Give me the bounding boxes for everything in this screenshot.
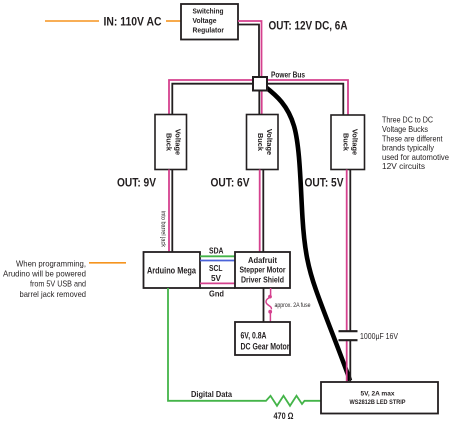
svg-text:from 5V USB and: from 5V USB and <box>30 280 86 289</box>
svg-text:Regulator: Regulator <box>193 26 225 35</box>
resistor R1 470 ohm <box>262 396 321 406</box>
svg-text:5V: 5V <box>211 274 222 283</box>
svg-text:SCL: SCL <box>209 264 223 273</box>
svg-text:Voltage: Voltage <box>265 129 274 155</box>
wire AC input orange segment right <box>166 20 181 22</box>
svg-text:into barrel jack: into barrel jack <box>160 211 166 248</box>
svg-text:Stepper Motor: Stepper Motor <box>240 266 287 275</box>
wire buck2 to shield (pink) <box>259 170 261 253</box>
svg-text:Gnd: Gnd <box>209 289 224 298</box>
wire bus to buck2 (pink) <box>261 90 263 115</box>
svg-text:5V, 2A max: 5V, 2A max <box>361 391 395 398</box>
svg-text:Digital Data: Digital Data <box>191 389 232 399</box>
power bus node square <box>253 77 267 91</box>
wire buck3 to LED strip (pink lower) <box>346 341 348 383</box>
capacitor C1 1000uF plates <box>339 331 358 340</box>
svg-text:Three DC to DC: Three DC to DC <box>382 116 433 125</box>
wire buck1 to arduino (pink) <box>168 170 170 253</box>
wire regulator to power bus (black GND) <box>238 25 259 78</box>
arduino mega box <box>144 252 201 288</box>
svg-text:barrel jack removed: barrel jack removed <box>20 290 87 299</box>
svg-text:IN: 110V AC: IN: 110V AC <box>104 17 162 29</box>
note three DC to DC voltage bucks <box>382 116 449 172</box>
svg-text:Arudino will be powered: Arudino will be powered <box>3 270 86 279</box>
wire SCL (blue) <box>200 260 235 262</box>
voltage buck U2 <box>247 115 279 170</box>
wire Gnd (black) <box>200 287 235 289</box>
svg-text:Adafruit: Adafruit <box>248 256 277 265</box>
svg-text:Voltage: Voltage <box>351 129 360 155</box>
voltage buck U1 <box>155 115 187 170</box>
svg-text:brands typically: brands typically <box>382 144 435 153</box>
svg-text:Voltage: Voltage <box>193 16 217 25</box>
svg-text:Driver Shield: Driver Shield <box>241 275 284 284</box>
voltage buck U3 <box>331 115 365 170</box>
svg-text:OUT: 9V: OUT: 9V <box>117 178 156 190</box>
svg-text:OUT: 5V: OUT: 5V <box>305 178 344 190</box>
stepper motor driver shield box <box>235 252 290 288</box>
svg-text:12V circuits: 12V circuits <box>382 162 425 171</box>
wire bus to buck3 (pink) <box>267 80 348 115</box>
wire buck1 to arduino (black) <box>171 170 173 253</box>
svg-text:6V, 0.8A: 6V, 0.8A <box>241 331 268 341</box>
wire buck3 to LED strip (pink upper) <box>346 170 348 332</box>
svg-text:Switching: Switching <box>193 7 224 16</box>
wire bus to buck1 (pink) <box>169 80 253 115</box>
note when programming <box>3 259 86 299</box>
svg-text:Buck: Buck <box>165 133 174 152</box>
LED strip box <box>321 382 438 414</box>
svg-text:used for automotive: used for automotive <box>382 153 449 162</box>
svg-text:These are different: These are different <box>382 134 443 143</box>
wire digital data (green) <box>168 288 262 401</box>
svg-text:approx. 2A fuse: approx. 2A fuse <box>275 302 311 309</box>
svg-text:When programming,: When programming, <box>16 259 86 268</box>
fuse F1 (pink wire with fuse) <box>266 288 272 322</box>
wire bus to buck2 (black) <box>258 90 260 115</box>
wire bus to buck1 (black) <box>172 84 253 115</box>
svg-text:Buck: Buck <box>256 133 265 152</box>
svg-text:SDA: SDA <box>209 246 224 255</box>
switching voltage regulator box <box>181 4 238 40</box>
svg-text:DC Gear Motor: DC Gear Motor <box>241 342 290 352</box>
wire AC input orange segment left <box>45 20 99 22</box>
svg-text:1000µF 16V: 1000µF 16V <box>360 332 398 341</box>
svg-text:Power Bus: Power Bus <box>271 71 305 80</box>
wire regulator to power bus (pink +12V) <box>238 21 262 77</box>
svg-text:OUT: 12V DC, 6A: OUT: 12V DC, 6A <box>269 21 348 33</box>
wire SDA (green) <box>200 255 235 257</box>
wire 5V (pink) <box>200 282 235 284</box>
wire buck3 to LED strip (black lower) <box>349 341 351 383</box>
svg-text:Voltage: Voltage <box>174 129 183 155</box>
svg-text:Buck: Buck <box>342 133 351 152</box>
svg-text:Voltage Bucks: Voltage Bucks <box>382 125 428 134</box>
svg-text:470 Ω: 470 Ω <box>274 411 294 421</box>
wire shield to motor (black) <box>263 288 265 322</box>
svg-text:Arduino Mega: Arduino Mega <box>147 266 197 276</box>
callout line orange <box>89 262 126 264</box>
DC gear motor box <box>235 322 290 355</box>
svg-text:WS2812B LED STRIP: WS2812B LED STRIP <box>350 399 407 406</box>
wire buck3 to LED strip (black upper) <box>349 170 351 332</box>
wire bus to buck3 (black) <box>267 84 343 115</box>
wire buck2 to shield (black) <box>262 170 264 253</box>
thick power cable to LED strip <box>266 87 351 381</box>
svg-text:OUT: 6V: OUT: 6V <box>211 178 250 190</box>
